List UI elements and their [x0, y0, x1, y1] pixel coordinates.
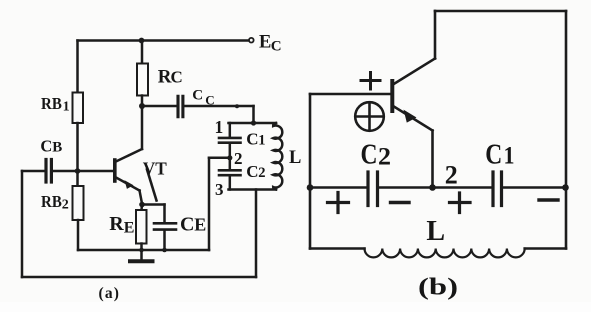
junction dot node 1 — [251, 120, 256, 125]
wire: CC to node 1 — [185, 105, 254, 108]
capacitor C2 bottom lead — [229, 177, 232, 190]
wire: collector riser (b) — [434, 11, 437, 59]
wire: node 1 riser — [252, 106, 255, 123]
svg-text:C: C — [205, 93, 214, 108]
capacitor CB right lead — [53, 170, 78, 173]
wire: (b) right edge — [565, 11, 568, 249]
svg-text:2: 2 — [62, 197, 69, 212]
transistor (b) emitter slant — [393, 106, 433, 131]
resistor RC top lead — [141, 41, 144, 64]
plus mark above base wire — [361, 79, 380, 82]
svg-text:B: B — [52, 140, 62, 156]
capacitor C2 plates — [219, 169, 241, 172]
transistor (b) collector slant — [393, 59, 435, 85]
resistor RE — [136, 210, 147, 244]
svg-text:2: 2 — [258, 165, 265, 181]
svg-text:3: 3 — [215, 180, 224, 199]
wire: top-left corner down to RB1 — [76, 41, 79, 93]
wire: (b) base wire — [310, 93, 391, 96]
junction dot RE/ground on rail — [139, 248, 144, 253]
svg-text:RB: RB — [41, 192, 62, 211]
resistor RB2 — [73, 186, 84, 220]
plus mark right of node 2 — [450, 201, 471, 204]
svg-text:C: C — [246, 129, 258, 148]
current source cross — [368, 105, 371, 129]
wire: riser from bottom rail to node 3 — [255, 190, 258, 278]
wire: (b) middle rail left segment — [310, 186, 367, 189]
transistor (b) emitter arrow — [404, 110, 417, 123]
minus mark right of C2 — [391, 201, 410, 204]
capacitor CB left lead — [22, 170, 44, 173]
wire: left feedback edge — [21, 171, 24, 277]
node dot 2 (b) — [429, 184, 436, 191]
capacitor CC plates — [176, 96, 179, 116]
wire: C1 to C2 through node 2 — [229, 144, 232, 170]
resistor RC — [137, 64, 148, 96]
terminal EC open circle — [249, 38, 254, 43]
VT label leader line — [147, 170, 157, 201]
capacitor CC left wire — [142, 105, 176, 108]
junction dot on CC wire — [235, 104, 239, 108]
transistor VT collector slant — [116, 149, 142, 162]
wire: (a) bottom feedback rail — [22, 276, 256, 279]
wire: (b) left edge — [309, 94, 312, 249]
node dot left (b) — [307, 184, 314, 191]
wire: collector riser — [141, 106, 144, 149]
junction dot node 2 (a) — [227, 155, 232, 160]
capacitor CB plates — [44, 160, 47, 183]
minus mark right of C1 — [539, 198, 558, 201]
svg-text:C: C — [485, 139, 502, 170]
svg-text:1: 1 — [63, 99, 70, 114]
junction dot on top rail — [139, 38, 145, 44]
capacitor C1 (b) plates — [491, 172, 494, 206]
svg-text:2: 2 — [234, 149, 243, 168]
svg-text:2: 2 — [445, 161, 458, 190]
svg-text:C: C — [361, 140, 378, 171]
svg-text:(b): (b) — [418, 275, 458, 301]
wire: emitter node to CE — [142, 203, 165, 206]
svg-text:L: L — [289, 148, 301, 168]
svg-text:(a): (a) — [99, 285, 121, 302]
svg-text:R: R — [109, 213, 124, 235]
junction dot base node — [75, 168, 81, 174]
svg-text:C: C — [180, 214, 194, 236]
wire: node 2 drop to ground rail — [208, 158, 211, 250]
svg-text:1: 1 — [504, 142, 515, 169]
transistor VT emitter arrow — [125, 180, 134, 189]
transistor VT base bar — [113, 160, 117, 181]
transistor VT emitter slant — [116, 178, 140, 191]
wire: node 2 stub left — [209, 157, 230, 160]
resistor RE bottom lead — [140, 244, 143, 251]
svg-text:C: C — [171, 68, 183, 87]
svg-text:1: 1 — [258, 132, 265, 148]
resistor RB1 — [73, 93, 84, 124]
svg-text:C: C — [40, 137, 52, 156]
wire: (b) middle rail centre segment — [379, 186, 492, 189]
capacitor C1 plates — [219, 137, 241, 140]
current source circle — [355, 102, 384, 131]
svg-text:E: E — [259, 33, 271, 53]
inductor L of tank (a) — [273, 123, 282, 190]
wire: (a) top supply rail — [78, 39, 248, 42]
inductor L (b) scallops — [365, 249, 525, 258]
capacitor CE bottom lead — [163, 231, 166, 250]
resistor RC bottom lead — [141, 96, 144, 107]
junction dot CE bottom on rail — [162, 248, 167, 253]
capacitor C1 top lead — [229, 123, 232, 138]
wire: emitter bend down to node — [140, 191, 143, 204]
ground symbol — [140, 250, 143, 260]
svg-text:C: C — [192, 87, 203, 103]
node dot right (b) — [562, 184, 569, 191]
junction dot collector/RC/CC — [139, 103, 145, 109]
wire: ground rail under RE/CE — [78, 249, 209, 252]
resistor RE top lead — [140, 205, 143, 211]
wire: (b) bottom rail left — [310, 247, 365, 250]
plus mark left of C2 — [328, 201, 349, 204]
svg-text:2: 2 — [378, 144, 391, 171]
junction dot emitter node — [139, 202, 145, 208]
svg-text:C: C — [246, 162, 258, 181]
svg-text:L: L — [426, 216, 445, 247]
wire: tank bottom (node 3) — [229, 188, 277, 191]
wire: (b) top rail — [435, 10, 566, 13]
svg-text:1: 1 — [215, 117, 224, 137]
svg-text:C: C — [271, 38, 282, 54]
svg-text:VT: VT — [143, 159, 167, 179]
wire: (b) middle rail right segment — [504, 186, 567, 189]
capacitor CE top lead — [163, 205, 166, 222]
transistor (b) base bar — [390, 81, 394, 111]
wire: base wire to VT — [78, 170, 114, 173]
wire: (b) bottom rail right — [525, 247, 566, 250]
wire: RB2 bottom to ground rail — [77, 220, 80, 250]
capacitor CE plates — [154, 222, 176, 225]
svg-text:RB: RB — [41, 94, 62, 113]
wire: tank top (node 1) — [229, 122, 277, 125]
wire: emitter drop to node 2 — [431, 131, 434, 188]
capacitor C2 (b) plates — [366, 172, 369, 206]
svg-text:E: E — [194, 215, 206, 235]
wire: RB1 bottom to RB2 top through base node — [76, 123, 79, 186]
svg-text:E: E — [124, 219, 135, 236]
